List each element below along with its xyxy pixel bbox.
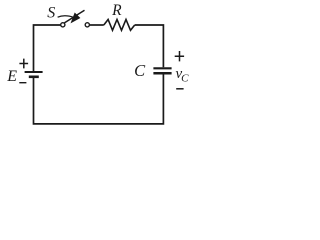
svg-text:R: R [111,2,122,19]
wire bottom: capacitor bottom around to battery bottom [34,74,164,124]
switch blade [64,10,84,23]
svg-text:E: E [6,68,17,85]
switch arrowhead [71,13,81,24]
capacitor plus sign [175,51,184,61]
battery plus sign [19,59,28,69]
capacitor C bottom plate [153,72,171,75]
switch right contact [85,23,89,27]
svg-text:S: S [47,4,55,21]
capacitor C top plate [153,67,171,69]
battery E positive plate [25,71,43,73]
svg-text:C: C [181,73,189,85]
svg-text:C: C [134,61,146,80]
resistor R zigzag [104,20,135,31]
wire top-mid: switch right contact to resistor [90,24,104,26]
wire top-right: resistor to capacitor top [135,25,164,67]
battery minus sign [19,82,26,84]
battery E negative plate [29,76,39,79]
wire top-left: battery top to switch left contact [34,25,61,71]
switch closing-motion arc [58,16,74,18]
switch left contact [61,23,65,27]
capacitor minus sign [176,88,183,90]
